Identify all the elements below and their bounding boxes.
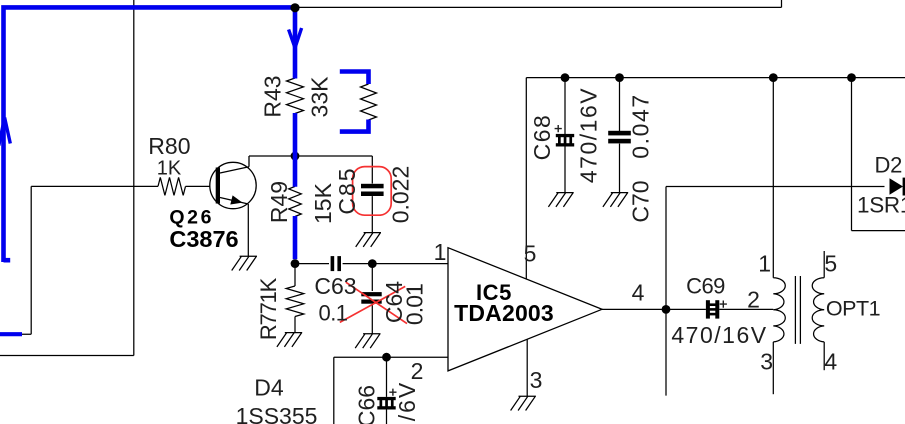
- wire supply rail: [526, 77, 905, 79]
- svg-text:1SS355: 1SS355: [236, 403, 318, 424]
- node rail-C68: [561, 73, 570, 82]
- wire C70 to ground: [619, 144, 621, 193]
- wire C69 to OPT1 pin2: [719, 308, 773, 310]
- svg-text:2: 2: [747, 287, 760, 313]
- wire R77 bottom: [294, 317, 296, 333]
- wire C63 to pin1: [343, 263, 448, 265]
- diode D2: [890, 178, 905, 196]
- svg-text:C66: C66: [354, 385, 380, 424]
- wire IC5 output: [602, 308, 706, 310]
- wire OPT1 pin4 stub: [823, 342, 825, 370]
- plus C68: [555, 125, 562, 132]
- svg-text:TDA2003: TDA2003: [454, 300, 554, 326]
- resistor R43: [287, 78, 304, 114]
- capacitor C63: [331, 256, 335, 271]
- capacitor C85: [361, 184, 384, 189]
- wire OPT1 pin1 from rail: [772, 78, 774, 278]
- arrow blue down: [289, 28, 302, 48]
- svg-text:C68: C68: [529, 114, 555, 161]
- svg-text:C69: C69: [686, 274, 725, 299]
- wire pin 3 down: [526, 339, 528, 396]
- svg-text:D2: D2: [875, 153, 903, 178]
- resistor R77: [286, 286, 304, 317]
- wire R80 to Q26 base: [186, 185, 211, 187]
- wire blue stub left: [0, 332, 22, 336]
- node rail-C70: [615, 73, 624, 82]
- svg-text:OPT1: OPT1: [826, 297, 880, 321]
- wire pin 2 feedback: [334, 357, 448, 424]
- svg-text:5: 5: [824, 251, 837, 277]
- wire blue R43-R49: [293, 113, 298, 187]
- node rail-OPT1: [769, 73, 778, 82]
- wire blue highlighted net top-left: [4, 7, 296, 262]
- node C66 junction: [382, 353, 391, 362]
- node B mixing junction: [291, 259, 300, 268]
- wire left vertical bus: [0, 0, 134, 356]
- resistor R49: [289, 186, 302, 216]
- plus C66: [389, 389, 396, 396]
- wire C68 to ground: [564, 147, 566, 193]
- wire C85 to ground: [371, 196, 373, 233]
- ground pin 3: [511, 396, 536, 410]
- annotation red X over C64: [340, 282, 407, 323]
- annotation red ring around C85: [353, 167, 392, 216]
- capacitor C64: [361, 292, 381, 296]
- svg-text:33K: 33K: [306, 76, 332, 118]
- wire blue 33K bracket top: [340, 72, 369, 85]
- wire blue R49 lower: [293, 216, 298, 259]
- wire node B to C63: [295, 263, 329, 265]
- svg-text:1: 1: [758, 251, 771, 277]
- wire C64 to ground: [371, 305, 373, 334]
- wire output riser and D2 feed: [666, 187, 885, 396]
- svg-text:470/16V: 470/16V: [576, 87, 602, 183]
- op-amp IC5 TDA2003 body: [448, 248, 602, 371]
- svg-text:R43: R43: [260, 75, 286, 117]
- wire base input L-shape: [0, 186, 158, 334]
- wire pin 5 to supply rail: [525, 78, 527, 279]
- ground C68: [548, 193, 573, 207]
- node rail-right drop: [847, 73, 856, 82]
- wire Q26 collector to node: [249, 155, 372, 157]
- capacitor C70: [608, 131, 631, 136]
- wire blue R43 upper: [293, 6, 298, 79]
- wire OPT1 pin5 stub: [823, 251, 825, 278]
- svg-text:2: 2: [411, 358, 424, 384]
- svg-text:0.01: 0.01: [402, 284, 428, 325]
- svg-text:D4: D4: [254, 375, 284, 401]
- svg-text:R80: R80: [148, 133, 190, 159]
- svg-text:3: 3: [760, 349, 773, 375]
- svg-text:1K: 1K: [157, 158, 182, 180]
- svg-text:1SR1: 1SR1: [857, 193, 905, 218]
- svg-text:0.1: 0.1: [318, 301, 347, 326]
- node Q26 collector junction: [291, 152, 300, 161]
- wire C66 drop: [386, 357, 388, 397]
- svg-text:4: 4: [632, 280, 645, 306]
- wire C64 drop: [371, 264, 373, 291]
- svg-text:15K: 15K: [310, 182, 336, 224]
- plus C69: [720, 301, 727, 308]
- wire C70 drop: [619, 78, 621, 131]
- svg-text:R49: R49: [266, 181, 292, 223]
- transformer OPT1 secondary: [812, 278, 824, 342]
- resistor R80: [158, 177, 186, 195]
- transformer OPT1 primary: [773, 278, 785, 342]
- wire C68 drop: [564, 78, 566, 134]
- ground C85: [356, 233, 381, 247]
- capacitor C68: [556, 134, 574, 137]
- svg-text:0.022: 0.022: [388, 166, 414, 224]
- wire right drop to edge: [852, 78, 905, 231]
- ground Q26 emitter: [232, 256, 257, 270]
- svg-text:5: 5: [524, 241, 537, 267]
- svg-text:4: 4: [824, 349, 837, 375]
- wire emitter down: [247, 204, 249, 256]
- svg-text:R771K: R771K: [256, 277, 281, 340]
- svg-text:/6V: /6V: [394, 381, 420, 422]
- ground R77: [277, 333, 302, 347]
- arrow blue up: [0, 118, 10, 146]
- capacitor C66: [377, 397, 395, 400]
- transformer OPT1 core: [795, 276, 800, 344]
- capacitor C69: [706, 300, 710, 318]
- wire blue 33K bracket bottom: [340, 120, 369, 132]
- svg-text:C63: C63: [314, 273, 356, 299]
- wire blue foot: [4, 258, 11, 263]
- svg-text:3: 3: [530, 367, 543, 393]
- ground C70: [603, 193, 628, 207]
- wire R77 top: [294, 264, 296, 286]
- node output junction: [662, 305, 671, 314]
- svg-text:1: 1: [434, 239, 447, 265]
- wire top net from node A to top edge: [295, 0, 782, 7]
- svg-text:0.047: 0.047: [628, 93, 654, 159]
- wire OPT1 pin3: [772, 342, 774, 394]
- resistor 33K parallel: [361, 84, 377, 120]
- svg-text:C70: C70: [628, 180, 654, 222]
- svg-text:C85: C85: [334, 166, 360, 214]
- wire C66 bottom: [386, 410, 388, 424]
- transistor Q26: [210, 156, 256, 209]
- svg-text:C3876: C3876: [169, 226, 238, 252]
- svg-text:470/16V: 470/16V: [671, 322, 767, 348]
- node A top junction: [290, 3, 299, 12]
- node C63-C64 junction: [368, 259, 377, 268]
- wire C85 top drop: [371, 156, 373, 184]
- ground C64: [355, 334, 380, 348]
